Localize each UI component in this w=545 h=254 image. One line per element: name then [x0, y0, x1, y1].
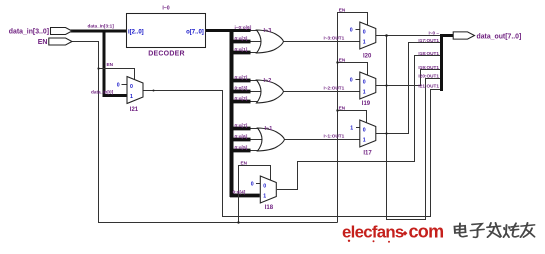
svg-text:1: 1 — [363, 137, 366, 143]
svg-text:I~2: I~2 — [264, 78, 272, 84]
svg-text:data_in[3..0]: data_in[3..0] — [9, 29, 49, 36]
svg-text:i~3:OUT1: i~3:OUT1 — [324, 36, 345, 41]
svg-text:1: 1 — [363, 89, 366, 95]
svg-text:I19: I19 — [362, 101, 371, 107]
svg-text:I~1: I~1 — [265, 126, 273, 132]
svg-text:1: 1 — [363, 39, 366, 45]
svg-text:0:o[1]: 0:o[1] — [235, 47, 248, 52]
svg-text:data_out[7..0]: data_out[7..0] — [477, 34, 522, 41]
svg-text:I18: I18 — [265, 205, 274, 211]
svg-text:0: 0 — [363, 79, 366, 85]
svg-text:EN: EN — [339, 106, 346, 111]
svg-text:1: 1 — [130, 94, 133, 100]
svg-text:I17:OUT1: I17:OUT1 — [418, 38, 439, 43]
svg-text:0: 0 — [130, 84, 133, 90]
svg-text:elecfans: elecfans — [342, 223, 404, 242]
svg-text:0: 0 — [350, 28, 353, 34]
svg-text:EN: EN — [241, 161, 248, 166]
svg-text:i[2..0]: i[2..0] — [128, 29, 144, 35]
svg-text:I20:OUT1: I20:OUT1 — [418, 74, 439, 79]
svg-text:I~3: I~3 — [264, 28, 272, 34]
svg-text:0: 0 — [363, 29, 366, 35]
svg-text:EN: EN — [38, 39, 48, 46]
svg-text:0:o[3]: 0:o[3] — [235, 36, 248, 41]
svg-text:i~1:OUT1: i~1:OUT1 — [324, 134, 345, 139]
svg-text:I20: I20 — [363, 53, 372, 59]
svg-text:I18:OUT1: I18:OUT1 — [418, 51, 439, 56]
svg-text:0:o[7]: 0:o[7] — [235, 123, 248, 128]
svg-text:1: 1 — [350, 126, 353, 132]
svg-text:DECODER: DECODER — [148, 50, 184, 57]
svg-text:0:o[4]: 0:o[4] — [233, 190, 246, 195]
svg-text:com: com — [409, 222, 444, 242]
svg-text:1: 1 — [263, 193, 266, 199]
svg-text:data_in[3:1]: data_in[3:1] — [88, 24, 115, 29]
svg-text:0:o[6]: 0:o[6] — [235, 134, 248, 139]
svg-text:0: 0 — [263, 183, 266, 189]
svg-text:0: 0 — [363, 127, 366, 133]
svg-text:I~0: I~0 — [162, 5, 169, 11]
svg-text:0:o[7]: 0:o[7] — [235, 75, 248, 80]
svg-text:0:o[5]: 0:o[5] — [235, 145, 248, 150]
svg-text:0: 0 — [251, 182, 254, 188]
svg-text:I19:OUT1: I19:OUT1 — [418, 65, 439, 70]
svg-text:i~0 –: i~0 – — [428, 31, 439, 36]
svg-text:0:o[3]: 0:o[3] — [235, 86, 248, 91]
svg-text:EN: EN — [339, 58, 346, 63]
svg-text:o[7..0]: o[7..0] — [186, 29, 204, 35]
svg-text:I21:OUT1: I21:OUT1 — [418, 84, 439, 89]
svg-text:EN: EN — [339, 8, 346, 13]
svg-text:0:o[2]: 0:o[2] — [235, 96, 248, 101]
svg-text:I17: I17 — [363, 150, 372, 156]
svg-text:i~0:o[6]: i~0:o[6] — [235, 25, 252, 30]
svg-text:i~2:OUT1: i~2:OUT1 — [324, 86, 345, 91]
svg-text:data_in[0]: data_in[0] — [91, 90, 114, 95]
svg-text:I21: I21 — [130, 107, 139, 113]
svg-text:0: 0 — [117, 83, 120, 89]
svg-text:0: 0 — [350, 78, 353, 84]
svg-text:EN: EN — [107, 62, 114, 67]
